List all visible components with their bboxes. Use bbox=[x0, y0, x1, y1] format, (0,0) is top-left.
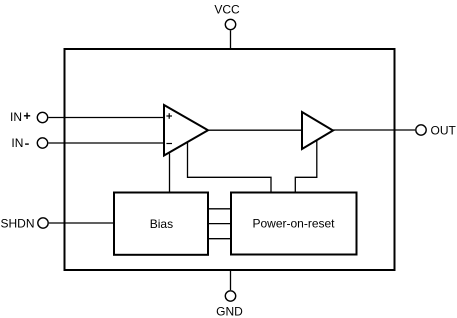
svg-text:Power-on-reset: Power-on-reset bbox=[252, 217, 335, 231]
wire Bias-POR link 2 bbox=[208, 223, 231, 225]
op-amp U1 bbox=[164, 105, 208, 156]
wire IN- to op-amp bbox=[48, 142, 164, 144]
Power-on-reset block bbox=[231, 193, 357, 255]
op-amp - input mark bbox=[166, 143, 172, 145]
svg-text:IN: IN bbox=[11, 136, 23, 150]
wire op-amp to Power-on-reset bbox=[188, 142, 272, 193]
IC boundary box bbox=[65, 49, 395, 270]
wire buffer to Power-on-reset bbox=[295, 140, 317, 192]
IN+ pin terminal bbox=[37, 112, 47, 122]
op-amp + input mark bbox=[166, 113, 172, 119]
wire op-amp to Bias bbox=[169, 154, 171, 193]
svg-text:SHDN: SHDN bbox=[1, 216, 35, 230]
wire op-amp output to buffer bbox=[208, 129, 302, 131]
svg-text:OUT: OUT bbox=[431, 124, 457, 138]
VCC pin terminal bbox=[225, 19, 235, 29]
wire Bias-POR link 3 bbox=[208, 238, 231, 240]
wire buffer output to OUT bbox=[333, 129, 415, 131]
buffer U2 bbox=[302, 112, 333, 149]
wire GND stem bbox=[230, 270, 232, 290]
wire SHDN to Bias bbox=[49, 222, 114, 224]
Bias block bbox=[114, 193, 208, 255]
SHDN pin terminal bbox=[38, 218, 48, 228]
svg-text:GND: GND bbox=[216, 304, 243, 318]
IN- pin terminal bbox=[37, 138, 47, 148]
OUT pin terminal bbox=[416, 125, 426, 135]
wire Bias-POR link 1 bbox=[208, 208, 231, 210]
wire VCC stem bbox=[230, 30, 232, 49]
svg-text:IN: IN bbox=[10, 110, 22, 124]
svg-text:VCC: VCC bbox=[214, 2, 240, 16]
svg-text:Bias: Bias bbox=[150, 217, 173, 231]
wire IN+ to op-amp bbox=[48, 117, 164, 119]
GND pin terminal bbox=[225, 291, 235, 301]
